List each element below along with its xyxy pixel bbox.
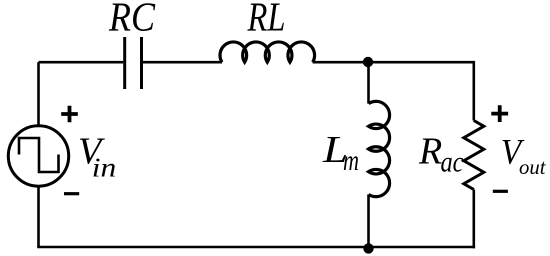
plus sign of Vin <box>61 106 78 123</box>
wire: inductor RL to top-right corner <box>313 61 474 64</box>
capacitor RC (right plate) <box>140 37 143 89</box>
capacitor RC (left plate) <box>123 37 126 89</box>
svg-text:R: R <box>418 131 442 173</box>
svg-text:ac: ac <box>441 146 464 179</box>
svg-text:RL: RL <box>247 0 286 39</box>
minus sign of Vin <box>64 192 79 195</box>
junction dot top (node between RL, Lm, Rac) <box>363 57 373 67</box>
junction dot bottom <box>363 243 373 253</box>
svg-text:in: in <box>92 152 117 182</box>
wire: right vertical top (to resistor Rac) <box>472 61 475 121</box>
wire: left vertical bottom (source to bottom wire) <box>37 187 40 247</box>
voltage source Vin (circle) <box>8 126 68 186</box>
wire: top-left horizontal from left branch to capacitor <box>39 61 124 64</box>
inductor Lm (4 vertical humps) <box>369 101 390 196</box>
voltage source Vin square-wave symbol <box>19 138 59 172</box>
svg-text:m: m <box>343 144 359 177</box>
wire: Lm branch bottom <box>367 194 370 247</box>
wire: capacitor to inductor RL <box>143 61 222 64</box>
resistor Rac zigzag <box>464 121 484 190</box>
wire: Lm branch top <box>367 62 370 103</box>
wire: left vertical top (source to top wire) <box>37 62 40 124</box>
svg-text:out: out <box>519 155 547 179</box>
svg-text:RC: RC <box>108 0 155 39</box>
wire: right vertical bottom <box>472 190 475 249</box>
wire: bottom horizontal <box>37 246 475 249</box>
minus sign of Vout <box>493 190 508 193</box>
inductor RL (4 humps) <box>220 42 315 62</box>
plus sign of Vout <box>491 105 508 122</box>
